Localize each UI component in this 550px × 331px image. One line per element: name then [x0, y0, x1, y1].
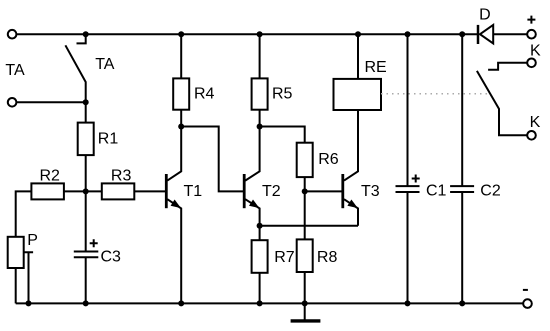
- wire R1 to mid rail: [85, 155, 87, 191]
- plus top right: [527, 16, 535, 24]
- node bottom wiper: [26, 300, 32, 306]
- resistor R7: [252, 240, 268, 273]
- node bottom C1: [405, 300, 411, 306]
- wire R3 to T1 base: [134, 190, 165, 192]
- svg-text:K: K: [530, 43, 541, 60]
- resistor R2: [31, 183, 64, 199]
- switch TA fixed contact: [77, 34, 86, 43]
- wire top to C2: [461, 34, 463, 186]
- ground: [304, 303, 306, 319]
- wire RE to T3 collector: [344, 110, 358, 181]
- node lower input junction: [83, 99, 89, 105]
- wire R6 to R8: [304, 177, 306, 239]
- capacitor C2: [450, 186, 474, 192]
- wire mid rail left: [16, 191, 32, 236]
- svg-text:C2: C2: [480, 183, 501, 200]
- svg-text:T2: T2: [262, 183, 281, 200]
- wire R4 to node: [180, 110, 182, 127]
- node top C1: [405, 31, 411, 37]
- switch TA lever: [65, 45, 85, 102]
- transistor T1: [167, 127, 181, 181]
- diode D: [477, 25, 480, 44]
- capacitor C3: [74, 252, 99, 258]
- node top rail TA: [83, 31, 89, 37]
- wire emitter row: [260, 225, 358, 227]
- terminal plus: [527, 30, 536, 39]
- linkage dotted: [381, 93, 490, 95]
- wire top to C1: [407, 34, 409, 186]
- minus bottom right: [523, 289, 528, 291]
- node bottom R7: [257, 300, 263, 306]
- resistor R3: [102, 183, 135, 199]
- svg-text:P: P: [27, 232, 38, 249]
- wire bottom rail: [16, 302, 524, 304]
- node T2 collector: [257, 124, 263, 130]
- svg-text:R6: R6: [318, 151, 339, 168]
- plus C1: [412, 175, 420, 183]
- wire base T3: [305, 190, 342, 192]
- svg-text:R2: R2: [40, 167, 61, 184]
- terminal K lower: [527, 131, 536, 140]
- wire top rail right of diode: [493, 33, 527, 35]
- terminal input lower-left: [8, 98, 17, 107]
- node T3 base: [302, 188, 308, 194]
- svg-text:TA: TA: [95, 56, 115, 73]
- node T2 emitter: [257, 223, 263, 229]
- svg-text:RE: RE: [365, 59, 387, 76]
- wire T2 collector to R6: [260, 127, 305, 143]
- svg-text:TA: TA: [5, 62, 25, 79]
- svg-text:C3: C3: [101, 249, 122, 266]
- resistor R5: [252, 78, 268, 109]
- lever K contact: [477, 71, 527, 135]
- svg-text:T1: T1: [184, 183, 203, 200]
- svg-text:D: D: [479, 7, 491, 24]
- svg-text:R8: R8: [317, 249, 338, 266]
- wire C3 to bottom: [85, 257, 87, 303]
- capacitor C1: [396, 186, 420, 192]
- wire top to R5: [259, 34, 261, 78]
- svg-text:K: K: [530, 114, 541, 131]
- terminal minus: [523, 299, 532, 308]
- svg-text:R4: R4: [194, 86, 215, 103]
- resistor R4: [173, 78, 189, 109]
- wire R5 to node: [259, 110, 261, 127]
- node top C2: [459, 31, 465, 37]
- wire lower input: [16, 101, 85, 103]
- wiper P: [24, 252, 33, 303]
- node top R4: [178, 31, 184, 37]
- plus C3: [90, 239, 98, 247]
- resistor R1: [78, 123, 94, 156]
- svg-text:C1: C1: [426, 183, 447, 200]
- svg-text:T3: T3: [361, 183, 380, 200]
- wire T1 collector to T2 base: [181, 127, 243, 192]
- node top R5: [257, 31, 263, 37]
- resistor R6: [297, 143, 313, 177]
- svg-text:R1: R1: [98, 131, 119, 148]
- svg-text:R5: R5: [272, 86, 293, 103]
- wire P to bottom rail: [15, 268, 17, 303]
- node bottom T1: [178, 300, 184, 306]
- wire top to R4: [180, 34, 182, 78]
- wire R2 to node: [64, 190, 102, 192]
- wire C1 to bottom: [407, 192, 409, 303]
- svg-text:R3: R3: [111, 167, 132, 184]
- wire R8 to bottom: [304, 272, 306, 303]
- node bottom C2: [459, 300, 465, 306]
- wire mid to C3: [85, 191, 87, 251]
- node T1 collector: [178, 124, 184, 130]
- wire K fixed contact: [488, 63, 527, 70]
- potentiometer P: [8, 237, 24, 268]
- node bottom C3: [83, 300, 89, 306]
- node mid R1: [83, 188, 89, 194]
- wire top rail left: [16, 33, 478, 35]
- wire R7 to bottom: [259, 273, 261, 304]
- svg-text:R7: R7: [274, 249, 295, 266]
- relay RE coil: [357, 34, 359, 79]
- terminal input top-left: [8, 30, 17, 39]
- transistor T2: [245, 127, 259, 181]
- wire C2 to bottom: [461, 192, 463, 303]
- node bottom ground: [302, 300, 308, 306]
- transistor T3: [341, 174, 344, 208]
- terminal K upper: [527, 59, 536, 68]
- resistor R8: [297, 239, 313, 272]
- wire emitter to R7: [259, 226, 261, 240]
- wire to R1: [85, 102, 87, 122]
